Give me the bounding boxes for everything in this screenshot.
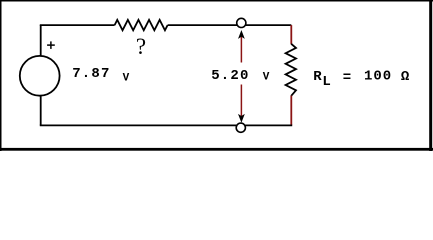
wire: red bottom-right vertical lead xyxy=(290,96,292,126)
voltage source V1 xyxy=(20,56,60,96)
svg-text:L: L xyxy=(322,74,330,90)
wire: red top-right vertical lead xyxy=(290,25,292,44)
voltage arrow shaft (red) xyxy=(240,33,242,118)
svg-text:=: = xyxy=(343,70,351,86)
+ polarity mark xyxy=(47,41,55,49)
svg-text:Ω: Ω xyxy=(401,69,410,85)
svg-text:?: ? xyxy=(136,34,146,59)
wire: top horizontal left segment xyxy=(40,24,115,26)
node B (bottom) xyxy=(236,123,245,132)
border frame xyxy=(0,0,433,151)
wire: bottom-right corner to bottom node xyxy=(245,124,292,126)
wire: top node to top-right corner xyxy=(245,24,291,26)
svg-text:V: V xyxy=(263,72,270,84)
arrowhead bottom xyxy=(238,114,245,123)
label background mask over arrow xyxy=(204,63,270,85)
resistor RL zigzag xyxy=(286,44,296,96)
wire: left vertical (source branch) xyxy=(40,25,42,125)
resistor ? (top, unknown) xyxy=(115,20,168,30)
arrowhead top xyxy=(238,30,245,39)
wire: bottom node to bottom-left corner xyxy=(40,124,237,126)
svg-text:R: R xyxy=(313,69,322,85)
svg-text:V: V xyxy=(123,72,130,84)
svg-text:100: 100 xyxy=(364,68,392,84)
wire: top horizontal right of resistor to node xyxy=(168,24,238,26)
svg-text:7.87: 7.87 xyxy=(72,66,110,82)
svg-text:5.20: 5.20 xyxy=(211,68,249,84)
node A (top) xyxy=(237,18,246,27)
label RL = 100 ohm xyxy=(313,68,410,90)
